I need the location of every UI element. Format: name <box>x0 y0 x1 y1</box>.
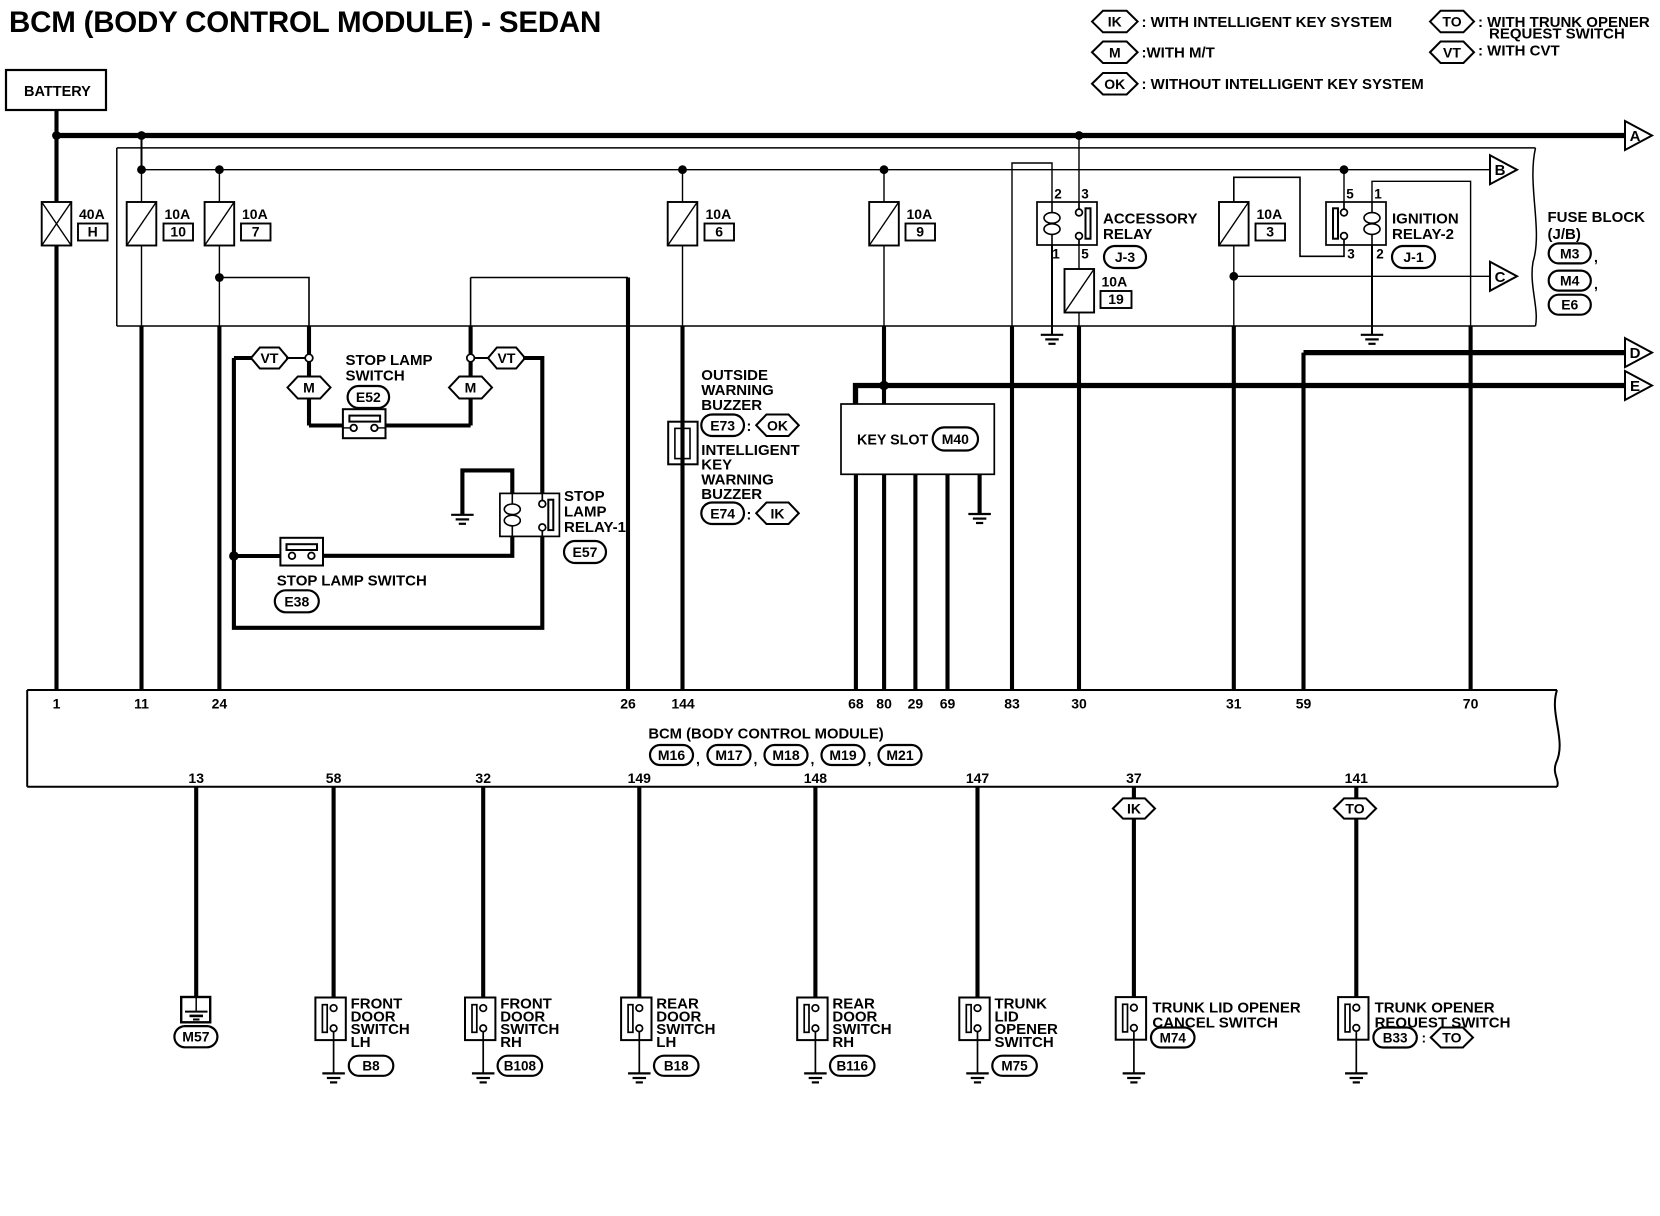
node inner line x219 <box>215 165 224 174</box>
wire BCM to rear door switch LH <box>637 787 641 1007</box>
svg-text:68: 68 <box>848 696 864 712</box>
wire key slot to BCM pin 69 <box>945 474 949 690</box>
svg-text:7: 7 <box>252 224 260 240</box>
front door switch RH with ground <box>465 998 495 1041</box>
svg-text:RELAY-2: RELAY-2 <box>1392 226 1454 243</box>
symbol IK pin 37 <box>1113 798 1155 818</box>
wire BCM pin 141 to request switch <box>1354 787 1358 1007</box>
wire branch to left VT/M node <box>219 278 309 327</box>
svg-text:144: 144 <box>671 696 695 712</box>
connector M17 <box>708 745 751 765</box>
connector M40 <box>933 427 978 450</box>
arrow A <box>1625 121 1652 150</box>
svg-text:H: H <box>88 224 98 240</box>
connector E73 <box>701 415 744 437</box>
node bus E key slot <box>879 381 889 391</box>
ignition relay-2 J-1 <box>1326 202 1386 245</box>
trunk opener request switch with ground <box>1338 997 1368 1040</box>
connector M16 <box>650 745 693 765</box>
warning buzzer box <box>668 422 697 465</box>
inner feed line B <box>142 169 1491 171</box>
wire down to left circle <box>307 326 311 355</box>
node left open circle <box>305 354 313 362</box>
svg-text:5: 5 <box>1081 247 1089 262</box>
wire fuse 9 to key slot <box>882 326 886 404</box>
wire fuse 9 down <box>883 246 885 327</box>
BCM connector box <box>26 690 28 787</box>
svg-text:M17: M17 <box>715 747 742 763</box>
wire to BCM pin 70 <box>1469 326 1473 690</box>
svg-text:40A: 40A <box>79 206 105 222</box>
svg-text:C: C <box>1495 269 1506 286</box>
accessory relay J-3 <box>1037 202 1097 245</box>
rear door switch RH with ground <box>797 998 827 1041</box>
arrow D <box>1625 338 1652 367</box>
node inner line x682 <box>678 165 687 174</box>
symbol TO request switch <box>1431 1028 1473 1048</box>
connector M21 <box>879 745 922 765</box>
connector B116 <box>830 1056 875 1076</box>
svg-text:LH: LH <box>656 1034 676 1051</box>
svg-text:M4: M4 <box>1560 273 1580 289</box>
svg-text:26: 26 <box>620 696 636 712</box>
svg-text:B116: B116 <box>836 1059 868 1074</box>
svg-text:B18: B18 <box>664 1059 689 1074</box>
svg-text:M74: M74 <box>1160 1030 1187 1045</box>
svg-text:SWITCH: SWITCH <box>346 368 405 385</box>
connector M4 <box>1549 271 1591 291</box>
svg-text:VT: VT <box>498 350 516 366</box>
connector M19 <box>822 745 865 765</box>
svg-text:141: 141 <box>1345 770 1369 786</box>
fuse 10A no.19 <box>1065 269 1095 313</box>
svg-text:E6: E6 <box>1561 297 1578 313</box>
svg-text:M21: M21 <box>886 747 913 763</box>
body ground M57 <box>181 997 210 1022</box>
wire inner line to fuse 7 <box>218 170 220 202</box>
svg-text:BCM (BODY CONTROL MODULE): BCM (BODY CONTROL MODULE) <box>648 727 883 743</box>
svg-text:147: 147 <box>966 770 990 786</box>
svg-text:BATTERY: BATTERY <box>24 84 91 100</box>
wire key slot to BCM pin 80 <box>882 474 886 690</box>
connector J-3 <box>1104 246 1146 268</box>
node right open circle <box>467 354 475 362</box>
svg-text:3: 3 <box>1347 247 1355 262</box>
svg-text:B108: B108 <box>504 1059 537 1074</box>
wire BCM pin 37 to cancel switch <box>1132 787 1136 1007</box>
wire to BCM pin 26 <box>626 278 630 691</box>
wire to BCM pin 31 <box>1232 326 1236 690</box>
wire fuse 7 down <box>218 246 220 327</box>
wire bus to fusible link H <box>54 136 58 203</box>
svg-text:E57: E57 <box>573 544 598 560</box>
wire bus D to BCM pin 59 <box>1301 353 1305 690</box>
svg-text:B33: B33 <box>1383 1030 1408 1045</box>
svg-text:M16: M16 <box>658 747 685 763</box>
legend OK symbol <box>1092 73 1138 95</box>
svg-text:69: 69 <box>940 696 956 712</box>
svg-text::: : <box>1422 1030 1427 1046</box>
wire accessory pin 5 to fuse 19 <box>1078 245 1080 269</box>
arrow C <box>1490 262 1517 291</box>
node bus junction x1079 <box>1075 131 1084 140</box>
svg-text:: WITH CVT: : WITH CVT <box>1478 43 1560 60</box>
key slot M40 box <box>841 404 994 474</box>
svg-text:LAMP: LAMP <box>564 504 607 521</box>
wire to BCM pin 24 <box>217 326 221 690</box>
rear door switch LH with ground <box>621 998 651 1041</box>
svg-text:,: , <box>811 751 815 767</box>
wire ignition pin 1 to BCM pin 70 <box>1372 181 1471 326</box>
wire left VT down to E38 node <box>232 358 236 556</box>
wire right circle up <box>469 326 473 354</box>
wire node to E38 <box>234 554 281 558</box>
node inner line x141 <box>137 165 146 174</box>
svg-text:STOP LAMP SWITCH: STOP LAMP SWITCH <box>277 573 427 590</box>
wire key slot to BCM pin 29 <box>913 474 917 690</box>
svg-text:D: D <box>1630 345 1641 362</box>
wire E52 right to right M <box>386 423 471 427</box>
connector M18 <box>765 745 808 765</box>
connector B8 <box>349 1056 394 1076</box>
svg-text:B: B <box>1495 162 1506 179</box>
wire fusible link to BCM pin 1 <box>54 246 58 691</box>
svg-text:30: 30 <box>1071 696 1087 712</box>
symbol VT left <box>251 348 288 369</box>
ground stop lamp relay <box>451 514 474 516</box>
svg-text:3: 3 <box>1266 224 1274 240</box>
wire circle to VT right <box>474 357 490 359</box>
node battery junction <box>52 131 61 140</box>
battery B+ <box>6 70 106 110</box>
connector E57 <box>564 541 606 563</box>
node E38 junction <box>229 551 239 561</box>
wire bus A to accessory relay pin 3 <box>1078 136 1080 206</box>
symbol IK buzzer <box>756 503 799 525</box>
svg-text:10A: 10A <box>1102 274 1128 290</box>
node fuse 7 branch <box>215 273 224 282</box>
svg-text:19: 19 <box>1108 291 1124 307</box>
ground ignition relay <box>1361 334 1384 336</box>
svg-text:M19: M19 <box>829 747 856 763</box>
node inner line x1344 <box>1340 165 1349 174</box>
svg-text:VT: VT <box>261 350 279 366</box>
wire battery to bus A <box>54 110 58 136</box>
wire BCM to front door switch LH <box>332 787 336 1007</box>
svg-text:IK: IK <box>771 505 785 521</box>
stop lamp switch E38 <box>280 538 323 566</box>
fuse 10A no.10 <box>127 202 157 246</box>
symbol TO pin 141 <box>1334 798 1376 818</box>
svg-text:J-1: J-1 <box>1403 249 1423 265</box>
svg-text:M75: M75 <box>1001 1059 1028 1074</box>
svg-text:11: 11 <box>134 696 149 712</box>
svg-text:,: , <box>868 751 872 767</box>
wire BCM pin 13 to ground M57 <box>194 787 198 997</box>
fuse 10A no.3 <box>1219 202 1249 246</box>
wire fuse 6 to BCM pin 144 <box>680 326 684 690</box>
wire key slot to ground <box>978 474 982 514</box>
stop lamp relay-1 E57 <box>500 493 560 536</box>
svg-text:24: 24 <box>212 696 228 712</box>
svg-text:BCM (BODY CONTROL MODULE) - SE: BCM (BODY CONTROL MODULE) - SEDAN <box>9 6 601 39</box>
svg-text:9: 9 <box>916 224 924 240</box>
wire accessory pin 1 to ground <box>1051 245 1053 335</box>
svg-text:ACCESSORY: ACCESSORY <box>1103 211 1197 228</box>
connector E6 <box>1549 295 1591 315</box>
wire E38 loop to relay contact <box>234 536 542 627</box>
svg-text:FUSE BLOCK: FUSE BLOCK <box>1548 209 1646 226</box>
legend VT symbol <box>1430 42 1474 64</box>
connector M74 <box>1151 1028 1195 1048</box>
connector J-1 <box>1392 246 1435 268</box>
stop lamp switch E52 <box>343 409 386 438</box>
svg-text:29: 29 <box>908 696 924 712</box>
wire fuse 10 to fuse block edge <box>141 246 143 327</box>
connector M57 <box>174 1026 217 1047</box>
wire BCM to trunk lid opener switch <box>975 787 979 1007</box>
svg-text:RH: RH <box>500 1034 522 1051</box>
svg-text:RH: RH <box>832 1034 854 1051</box>
connector B18 <box>654 1056 699 1076</box>
wire left VT branch <box>234 356 253 360</box>
wire relay coil top to ground <box>462 470 512 514</box>
svg-text:149: 149 <box>628 770 652 786</box>
svg-text:37: 37 <box>1126 770 1142 786</box>
svg-text:80: 80 <box>876 696 892 712</box>
svg-text:10: 10 <box>170 224 186 240</box>
svg-text:TO: TO <box>1345 801 1364 817</box>
svg-text:OK: OK <box>1104 76 1125 92</box>
front door switch LH with ground <box>315 998 345 1041</box>
svg-text::: : <box>747 419 752 435</box>
svg-text:KEY SLOT: KEY SLOT <box>857 433 928 449</box>
svg-text:10A: 10A <box>1257 206 1283 222</box>
wire accessory pin 2 to BCM pin 83 <box>1012 163 1052 326</box>
svg-text:BUZZER: BUZZER <box>701 397 762 414</box>
svg-text:10A: 10A <box>165 206 191 222</box>
svg-text:2: 2 <box>1054 187 1062 202</box>
svg-text:10A: 10A <box>706 206 732 222</box>
legend IK symbol <box>1092 11 1138 33</box>
svg-text:E74: E74 <box>710 505 735 521</box>
ground accessory relay <box>1041 334 1064 336</box>
svg-text::: : <box>747 508 752 524</box>
wire fuse 3 down <box>1233 246 1235 327</box>
connector E74 <box>701 503 744 525</box>
wire inner line to fuse 9 <box>883 170 885 202</box>
symbol OK buzzer <box>756 415 799 437</box>
wire circle through M to E52 <box>307 362 311 426</box>
svg-text:70: 70 <box>1463 696 1479 712</box>
svg-text:REQUEST SWITCH: REQUEST SWITCH <box>1489 26 1625 43</box>
svg-text:TO: TO <box>1442 1030 1461 1046</box>
connector B108 <box>498 1056 542 1076</box>
fuse 10A no.6 <box>668 202 698 246</box>
svg-text:E73: E73 <box>710 417 735 433</box>
svg-text:OK: OK <box>767 417 788 433</box>
svg-text:M3: M3 <box>1560 245 1580 261</box>
svg-text:(J/B): (J/B) <box>1548 226 1581 243</box>
wire inner line to fuse 10 <box>141 170 143 202</box>
svg-text:RELAY: RELAY <box>1103 226 1152 243</box>
svg-text:,: , <box>1594 249 1598 265</box>
svg-text:SWITCH: SWITCH <box>995 1034 1054 1051</box>
legend M symbol <box>1092 42 1138 64</box>
arrow B <box>1490 155 1517 184</box>
svg-text:,: , <box>754 751 758 767</box>
arrow E <box>1625 371 1652 400</box>
svg-text:1: 1 <box>53 696 61 712</box>
svg-text:10A: 10A <box>242 206 268 222</box>
wire to BCM pin 11 <box>139 326 143 690</box>
svg-text:58: 58 <box>326 770 342 786</box>
wire bus A to inner line <box>141 136 143 170</box>
fuse 10A no.7 <box>205 202 235 246</box>
wire fuse 6 down <box>682 246 684 327</box>
svg-text:IK: IK <box>1108 14 1122 30</box>
connector M75 <box>992 1056 1037 1076</box>
fuse block (J/B) box <box>116 148 118 326</box>
svg-text:M: M <box>1109 44 1121 60</box>
fusible link 40A H <box>42 202 72 246</box>
svg-text:1: 1 <box>1052 247 1060 262</box>
svg-text:5: 5 <box>1346 187 1354 202</box>
svg-text:BUZZER: BUZZER <box>701 486 762 503</box>
svg-text:E: E <box>1630 378 1640 395</box>
svg-text:STOP LAMP: STOP LAMP <box>346 352 433 369</box>
trunk lid opener switch with ground <box>959 998 989 1041</box>
wire E38 to relay coil <box>323 536 512 555</box>
wire to BCM pin 30 <box>1077 326 1081 690</box>
wire key slot to BCM pin 68 <box>854 474 858 690</box>
svg-text:32: 32 <box>475 770 491 786</box>
wire inner line to ignition relay pin 5 <box>1343 170 1345 205</box>
symbol M right <box>449 377 492 399</box>
wire BCM to rear door switch RH <box>813 787 817 1007</box>
connector E38 <box>275 590 319 612</box>
wire ignition pin 2 to ground <box>1371 245 1373 335</box>
svg-text:E52: E52 <box>356 389 381 405</box>
bus A wire <box>57 133 1626 138</box>
wire branch to arrow C <box>1234 275 1490 277</box>
wire to BCM pin 83 <box>1010 326 1014 690</box>
svg-text:3: 3 <box>1081 187 1089 202</box>
wire BCM to front door switch RH <box>481 787 485 1007</box>
fuse 10A no.9 <box>869 202 899 246</box>
svg-text:10A: 10A <box>907 206 933 222</box>
bus D wire <box>1304 350 1626 355</box>
wire fuse 3 to ignition relay pin 3 <box>1234 177 1344 256</box>
svg-text:STOP: STOP <box>564 488 605 505</box>
ground key slot <box>968 513 991 515</box>
svg-text::WITH M/T: :WITH M/T <box>1142 45 1215 62</box>
svg-text:M: M <box>303 380 315 396</box>
svg-text:31: 31 <box>1226 696 1242 712</box>
svg-text:TO: TO <box>1442 14 1461 30</box>
svg-text:M57: M57 <box>182 1029 209 1045</box>
node bus junction x141 <box>137 131 146 140</box>
connector B33 <box>1373 1028 1416 1048</box>
svg-text:IK: IK <box>1127 801 1141 817</box>
wire fuse 19 down <box>1078 313 1080 327</box>
connector E52 <box>348 386 390 408</box>
trunk lid opener cancel switch with ground <box>1116 997 1146 1040</box>
svg-text:6: 6 <box>715 224 723 240</box>
svg-text:B8: B8 <box>362 1059 380 1074</box>
svg-text:: WITHOUT INTELLIGENT KEY SYST: : WITHOUT INTELLIGENT KEY SYSTEM <box>1142 76 1424 93</box>
wire over to BCM pin 26 drop <box>471 277 628 279</box>
svg-text:,: , <box>696 751 700 767</box>
node inner line x884 <box>880 165 889 174</box>
svg-text:VT: VT <box>1443 44 1461 60</box>
bus E wire <box>856 386 1626 405</box>
svg-text:83: 83 <box>1004 696 1020 712</box>
wire inner line to fuse 6 <box>682 170 684 202</box>
svg-text:M18: M18 <box>772 747 799 763</box>
svg-text:J-3: J-3 <box>1115 249 1135 265</box>
svg-text:A: A <box>1630 128 1641 145</box>
svg-text:,: , <box>1594 276 1598 292</box>
wire VT right to relay contact <box>523 358 542 493</box>
svg-text:IGNITION: IGNITION <box>1392 211 1459 228</box>
symbol VT right <box>488 348 525 369</box>
svg-text:59: 59 <box>1296 696 1312 712</box>
svg-text:M: M <box>465 380 477 396</box>
svg-text:: WITH INTELLIGENT KEY SYSTEM: : WITH INTELLIGENT KEY SYSTEM <box>1142 14 1393 31</box>
svg-text:2: 2 <box>1376 247 1384 262</box>
svg-text:1: 1 <box>1374 187 1382 202</box>
svg-text:13: 13 <box>188 770 204 786</box>
wire VT to circle <box>286 357 305 359</box>
legend TO symbol <box>1430 11 1474 33</box>
svg-text:M40: M40 <box>942 431 969 447</box>
connector M3 <box>1549 243 1591 263</box>
symbol M left <box>288 377 331 399</box>
node fuse 3 branch <box>1229 272 1238 281</box>
svg-text:RELAY-1: RELAY-1 <box>564 519 626 536</box>
svg-text:LH: LH <box>351 1034 371 1051</box>
svg-text:E38: E38 <box>284 593 309 609</box>
svg-text:148: 148 <box>804 770 828 786</box>
